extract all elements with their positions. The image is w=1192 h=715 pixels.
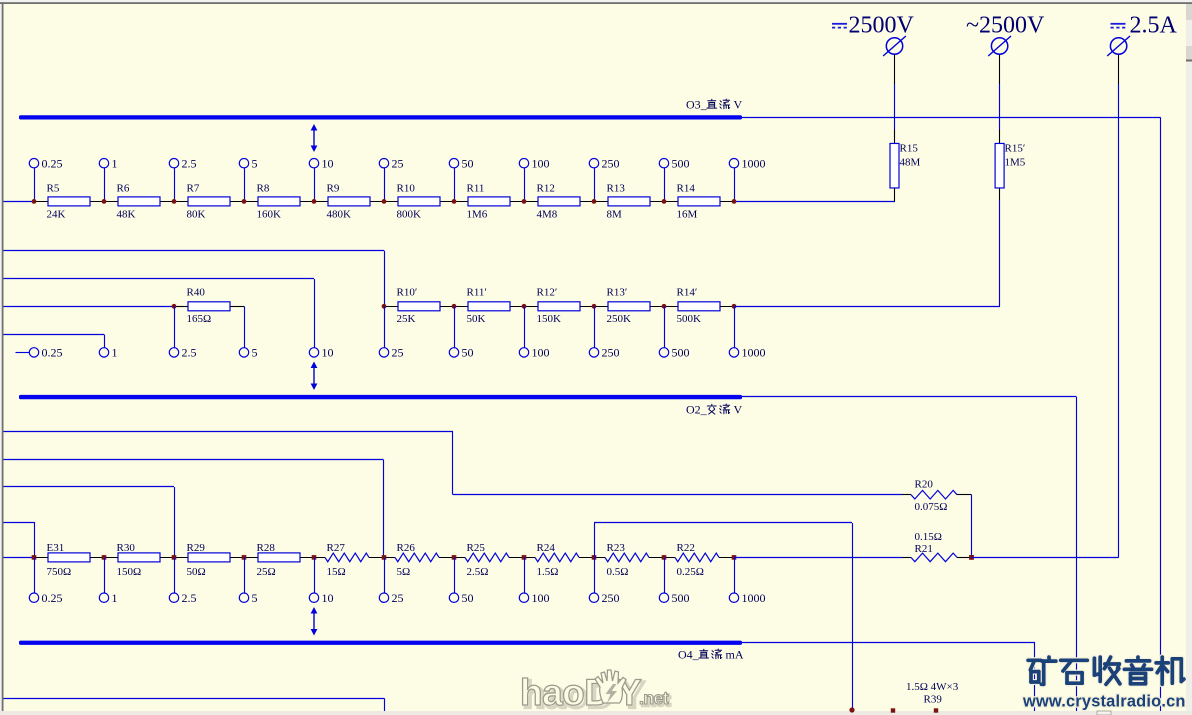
- svg-text:0.25Ω: 0.25Ω: [677, 566, 704, 578]
- svg-text:0.25: 0.25: [42, 591, 63, 605]
- svg-text:25: 25: [392, 346, 404, 360]
- svg-text:0.25: 0.25: [42, 157, 63, 171]
- svg-text:100: 100: [532, 157, 550, 171]
- svg-text:5Ω: 5Ω: [397, 566, 411, 578]
- svg-text:500: 500: [672, 346, 690, 360]
- svg-text:500K: 500K: [677, 313, 702, 325]
- svg-text:100: 100: [532, 591, 550, 605]
- svg-text:150Ω: 150Ω: [117, 566, 142, 578]
- svg-text:5: 5: [252, 346, 258, 360]
- svg-text:~2500V: ~2500V: [966, 13, 1045, 39]
- svg-text:R28: R28: [257, 542, 276, 554]
- svg-text:R27: R27: [327, 542, 346, 554]
- svg-text:0.5Ω: 0.5Ω: [607, 566, 629, 578]
- svg-text:100: 100: [532, 346, 550, 360]
- svg-text:R26: R26: [397, 542, 416, 554]
- svg-text:R5: R5: [47, 183, 60, 195]
- svg-text:160K: 160K: [257, 209, 282, 221]
- svg-text:R40: R40: [187, 287, 206, 299]
- svg-text:V: V: [734, 403, 743, 417]
- svg-text:R39: R39: [924, 694, 943, 706]
- svg-text:R11′: R11′: [467, 287, 487, 299]
- svg-text:.net: .net: [639, 688, 669, 708]
- svg-text:2500V: 2500V: [849, 13, 915, 39]
- svg-text:R10′: R10′: [397, 287, 418, 299]
- svg-text:R6: R6: [117, 183, 130, 195]
- svg-text:250K: 250K: [607, 313, 632, 325]
- svg-text:5: 5: [252, 591, 258, 605]
- svg-text:2.5: 2.5: [182, 591, 197, 605]
- svg-text:O3_: O3_: [686, 98, 708, 112]
- svg-text:R23: R23: [607, 542, 626, 554]
- svg-text:R20: R20: [915, 479, 934, 491]
- svg-text:R22: R22: [677, 542, 695, 554]
- svg-text:2.5A: 2.5A: [1130, 13, 1178, 39]
- svg-text:R11: R11: [467, 183, 485, 195]
- svg-text:R9: R9: [327, 183, 340, 195]
- svg-text:E31: E31: [47, 542, 65, 554]
- svg-text:15Ω: 15Ω: [327, 566, 346, 578]
- svg-text:250: 250: [602, 157, 620, 171]
- svg-text:250: 250: [602, 591, 620, 605]
- svg-text:25: 25: [392, 591, 404, 605]
- svg-text:0.15Ω: 0.15Ω: [915, 531, 942, 543]
- svg-text:R12′: R12′: [537, 287, 558, 299]
- svg-text:1: 1: [112, 591, 118, 605]
- svg-text:R10: R10: [397, 183, 416, 195]
- svg-text:10: 10: [322, 591, 334, 605]
- svg-text:R15′: R15′: [1005, 143, 1026, 155]
- svg-text:1000: 1000: [742, 157, 766, 171]
- svg-text:R13′: R13′: [607, 287, 628, 299]
- svg-text:50Ω: 50Ω: [187, 566, 206, 578]
- svg-text:2.5Ω: 2.5Ω: [467, 566, 489, 578]
- svg-text:0.25: 0.25: [42, 346, 63, 360]
- svg-text:1: 1: [112, 346, 118, 360]
- svg-text:80K: 80K: [187, 209, 206, 221]
- svg-text:8M: 8M: [607, 209, 623, 221]
- svg-text:O4_: O4_: [678, 648, 700, 662]
- svg-text:1000: 1000: [742, 346, 766, 360]
- svg-text:165Ω: 165Ω: [187, 313, 212, 325]
- svg-text:0.075Ω: 0.075Ω: [915, 501, 948, 513]
- svg-text:10: 10: [322, 346, 334, 360]
- svg-text:5: 5: [252, 157, 258, 171]
- svg-text:R29: R29: [187, 542, 206, 554]
- svg-text:50: 50: [462, 591, 474, 605]
- svg-text:4M8: 4M8: [537, 209, 558, 221]
- svg-text:1.5Ω 4W×3: 1.5Ω 4W×3: [906, 681, 959, 693]
- svg-text:16M: 16M: [677, 209, 698, 221]
- svg-text:25: 25: [392, 157, 404, 171]
- svg-text:1: 1: [112, 157, 118, 171]
- svg-text:R14′: R14′: [677, 287, 698, 299]
- svg-text:R21: R21: [915, 543, 933, 555]
- svg-text:2.5: 2.5: [182, 346, 197, 360]
- svg-text:R25: R25: [467, 542, 486, 554]
- svg-text:500: 500: [672, 591, 690, 605]
- svg-text:R24: R24: [537, 542, 556, 554]
- svg-text:50: 50: [462, 157, 474, 171]
- svg-text:mA: mA: [726, 648, 744, 662]
- svg-text:1M6: 1M6: [467, 209, 488, 221]
- svg-text:24K: 24K: [47, 209, 66, 221]
- svg-text:R15: R15: [900, 143, 919, 155]
- svg-text:R12: R12: [537, 183, 555, 195]
- svg-text:480K: 480K: [327, 209, 352, 221]
- svg-text:R7: R7: [187, 183, 200, 195]
- svg-text:500: 500: [672, 157, 690, 171]
- svg-text:R13: R13: [607, 183, 626, 195]
- svg-text:50: 50: [462, 346, 474, 360]
- svg-text:R30: R30: [117, 542, 136, 554]
- svg-text:150K: 150K: [537, 313, 562, 325]
- svg-text:800K: 800K: [397, 209, 422, 221]
- svg-text:1.5Ω: 1.5Ω: [537, 566, 559, 578]
- svg-text:V: V: [734, 98, 743, 112]
- svg-text:2.5: 2.5: [182, 157, 197, 171]
- svg-text:48M: 48M: [900, 157, 921, 169]
- svg-text:750Ω: 750Ω: [47, 566, 72, 578]
- svg-text:25K: 25K: [397, 313, 416, 325]
- svg-text:1M5: 1M5: [1005, 157, 1026, 169]
- svg-text:48K: 48K: [117, 209, 136, 221]
- svg-text:R8: R8: [257, 183, 270, 195]
- svg-text:250: 250: [602, 346, 620, 360]
- svg-text:25Ω: 25Ω: [257, 566, 276, 578]
- svg-text:www.crystalradio.cn: www.crystalradio.cn: [1022, 693, 1186, 711]
- svg-text:R14: R14: [677, 183, 696, 195]
- svg-text:50K: 50K: [467, 313, 486, 325]
- svg-text:1000: 1000: [742, 591, 766, 605]
- svg-text:O2_: O2_: [686, 403, 708, 417]
- svg-text:10: 10: [322, 157, 334, 171]
